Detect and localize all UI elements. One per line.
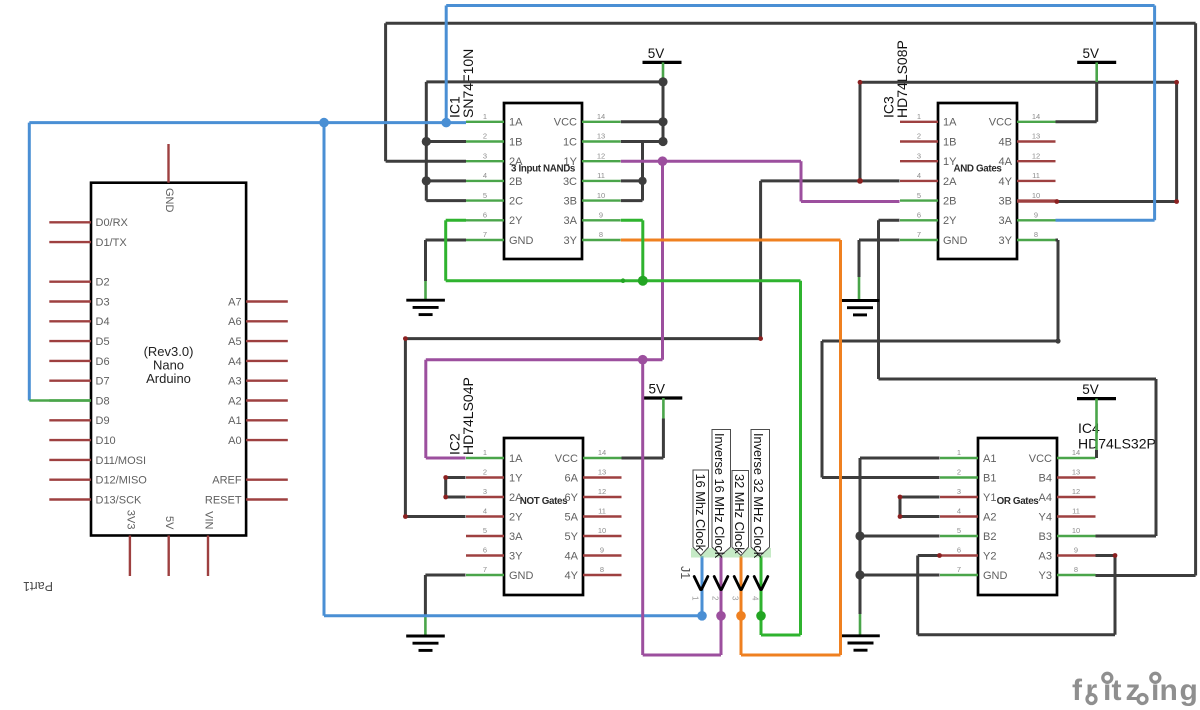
Nano pin D1/TX lead [49, 241, 91, 243]
wire IC3-2Y to IC4-B3 horizontal [879, 378, 1157, 381]
bendpoint IC3 rail right bottom [1174, 199, 1179, 204]
wire blue horizontal into IC3 pin 3A [1056, 219, 1155, 222]
junction purple at J1 pin2 [716, 611, 726, 621]
svg-text:12: 12 [1072, 487, 1080, 496]
Nano pin D11/MOSI lead [49, 459, 91, 461]
bendpoint IC3 2A corner [758, 336, 763, 341]
svg-text:A4: A4 [1039, 492, 1052, 504]
5V power symbol for IC1 [643, 46, 682, 63]
wire IC2 1Y stub [446, 476, 466, 479]
wire IC3 GND green tail [858, 277, 861, 300]
wire green IC1 3A vertical branch [641, 220, 644, 280]
wire orange vertical up to J1 pin3 pad [740, 556, 743, 655]
J1 pin 3 arrow [734, 577, 748, 590]
svg-text:13: 13 [597, 132, 605, 141]
junction blue at J1 pin1 [697, 611, 707, 621]
svg-text:HD74LS08P: HD74LS08P [894, 40, 910, 118]
svg-text:1B: 1B [943, 136, 956, 148]
wire IC2 VCC horizontal [622, 457, 664, 460]
IC4 IC body [978, 438, 1057, 595]
IC4 pin A3 lead (pin 9) [1057, 554, 1096, 556]
svg-text:1Y: 1Y [943, 156, 957, 168]
wire purple horizontal into IC2 pin 1A [426, 457, 466, 460]
svg-text:9: 9 [599, 211, 603, 220]
svg-text:1Y: 1Y [564, 156, 578, 168]
bendpoint IC4 Y2 [937, 553, 942, 558]
wire IC3 3B lead extension red [1017, 200, 1057, 202]
wire purple vertical branch down [661, 161, 664, 360]
svg-text:10: 10 [598, 526, 606, 535]
Nano pin D8 lead (connected) [49, 399, 91, 401]
svg-text:D11/MOSI: D11/MOSI [96, 455, 147, 467]
Nano pin A4 lead [246, 360, 288, 362]
svg-text:13: 13 [1072, 468, 1080, 477]
svg-text:D3: D3 [96, 296, 110, 308]
wire IC3 GND horizontal [859, 239, 900, 242]
IC1 pin 2B lead (pin 4) [466, 180, 504, 182]
svg-text:D7: D7 [96, 376, 110, 388]
IC2 pin 3A lead (pin 5) [466, 535, 504, 537]
wire IC1 3C 3B tie vertical [641, 142, 644, 201]
wire green long horizontal [446, 279, 801, 282]
IC4 pin B3 lead (pin 10) [1057, 535, 1096, 537]
svg-text:14: 14 [598, 448, 606, 457]
IC4 pin B2 lead (pin 5) [940, 535, 978, 537]
wire IC1 GND vertical [424, 240, 427, 281]
svg-text:14: 14 [1032, 112, 1040, 121]
IC3 pin 1Y lead (pin 3) [900, 160, 938, 162]
IC1 pin 3A lead (pin 9) [582, 219, 621, 221]
svg-text:HD74LS32P: HD74LS32P [1078, 436, 1156, 452]
wire horizontal into IC1 pin 2A [386, 160, 466, 163]
bendpoint IC4 A2 [898, 514, 903, 519]
junction IC1 2B [422, 176, 431, 185]
svg-text:2B: 2B [509, 176, 522, 188]
5V power symbol for IC3 [1077, 46, 1116, 63]
wire orange IC1 3Y horizontal [621, 239, 841, 242]
svg-text:6: 6 [957, 546, 961, 555]
svg-text:14: 14 [597, 112, 605, 121]
svg-text:3Y: 3Y [999, 235, 1013, 247]
IC3 pin 3A lead (pin 9) [1017, 219, 1056, 221]
IC2 pin 4A lead (pin 9) [583, 554, 622, 556]
bendpoint IC3 3Y corner [1055, 338, 1060, 343]
junction IC1 1B [422, 137, 431, 146]
svg-text:GND: GND [509, 570, 534, 582]
svg-text:5Y: 5Y [565, 531, 579, 543]
IC4 pin Y1 lead (pin 3) [940, 496, 978, 498]
Nano top GND pin lead [167, 144, 169, 183]
svg-text:10: 10 [1072, 526, 1080, 535]
IC4 pin VCC lead (pin 14) [1057, 457, 1096, 459]
svg-text:16 Mhz Clock: 16 Mhz Clock [693, 474, 708, 552]
bendpoint IC2 2Y top [403, 336, 408, 341]
wire 5V lead green above IC3 [1095, 62, 1098, 82]
bendpoint IC2 2Y corner [403, 514, 408, 519]
svg-text:4: 4 [751, 596, 760, 601]
wire IC4 B2 horizontal [860, 535, 940, 538]
Nano pin A2 lead [246, 399, 288, 401]
svg-text:D8: D8 [96, 395, 110, 407]
svg-text:AND Gates: AND Gates [953, 164, 1002, 175]
svg-text:2A: 2A [943, 176, 957, 188]
svg-text:1: 1 [691, 596, 700, 601]
svg-text:4Y: 4Y [565, 570, 579, 582]
wire IC2 GND green tail [424, 617, 427, 636]
svg-text:D1/TX: D1/TX [96, 237, 128, 249]
junction IC1 3C [638, 177, 646, 185]
svg-text:11: 11 [597, 171, 605, 180]
IC2 pin 6A lead (pin 13) [583, 476, 622, 478]
svg-text:5V: 5V [649, 382, 666, 397]
J1 pin pads (green) [691, 548, 771, 558]
wire purple vertical down to J1 [641, 360, 644, 655]
svg-text:2: 2 [483, 132, 487, 141]
Nano pin A1 lead [246, 419, 288, 421]
wire IC2 2Y vertical up [404, 339, 407, 517]
svg-text:3A: 3A [999, 215, 1013, 227]
svg-text:3: 3 [957, 487, 961, 496]
Nano pin D0/RX lead [49, 221, 91, 223]
svg-text:2Y: 2Y [509, 511, 523, 523]
IC3 pin 1B lead (pin 2) [900, 140, 938, 142]
svg-text:11: 11 [1032, 171, 1040, 180]
wire blue top horizontal to IC1 1A [29, 121, 466, 124]
Nano pin AREF lead [246, 479, 288, 481]
svg-text:7: 7 [483, 565, 487, 574]
wire IC1 tie-high rail horizontal to 5V [426, 80, 663, 83]
Nano bottom pin 3V3 lead [129, 536, 131, 577]
svg-text:9: 9 [1034, 211, 1038, 220]
svg-text:5: 5 [483, 526, 487, 535]
svg-text:5V: 5V [163, 516, 175, 530]
svg-text:5V: 5V [1082, 46, 1099, 61]
wire purple jog vertical [800, 161, 803, 201]
wire IC4 A2 stub [900, 515, 940, 518]
wire IC1 1C horizontal [621, 140, 663, 143]
svg-text:2B: 2B [943, 196, 956, 208]
wire green IC1 2Y horizontal [446, 219, 466, 222]
Nano pin A0 lead [246, 439, 288, 441]
svg-text:VIN: VIN [202, 511, 214, 529]
IC2 pin 2A lead (pin 3) [466, 496, 504, 498]
svg-text:OR Gates: OR Gates [997, 496, 1040, 507]
wire into IC1 pin 2C [426, 199, 466, 202]
IC2 pin 5A lead (pin 11) [583, 515, 622, 517]
svg-text:AREF: AREF [212, 475, 242, 487]
wire purple vertical to IC2 1A [424, 360, 427, 458]
svg-text:7: 7 [483, 230, 487, 239]
wire 5V vertical to IC1 VCC and 1C [662, 82, 665, 142]
wire green vertical down [444, 220, 447, 280]
J1 pin 1 arrow [694, 577, 708, 590]
wire IC3 VCC vertical to 5V [1095, 82, 1098, 122]
IC3 pin 2Y lead (pin 6) [900, 219, 938, 221]
svg-text:12: 12 [1032, 151, 1040, 160]
svg-text:D13/SCK: D13/SCK [96, 494, 143, 506]
wire IC1 GND horizontal [426, 239, 467, 242]
IC4 pin A1 lead (pin 1) [940, 457, 978, 459]
IC1 pin VCC lead (pin 14) [582, 121, 621, 123]
wire IC3 rail right vertical [1175, 82, 1178, 201]
Nano pin D5 lead [49, 340, 91, 342]
IC4 pin Y2 lead (pin 6) [940, 554, 978, 556]
wire horizontal into IC4 pin B1 [822, 476, 940, 479]
junction green small bendpoint [621, 278, 626, 283]
svg-text:VCC: VCC [555, 453, 578, 465]
svg-text:D12/MISO: D12/MISO [96, 475, 148, 487]
svg-text:3A: 3A [509, 531, 523, 543]
wire into IC1 pin 1B [426, 140, 466, 143]
wire IC4 A1 horizontal [860, 457, 940, 460]
IC3 pin 4A lead (pin 12) [1017, 160, 1056, 162]
IC1 IC body [504, 103, 582, 259]
wire IC2 2Y horizontal [405, 515, 465, 518]
svg-text:D9: D9 [96, 415, 110, 427]
wire orange vertical down [839, 240, 842, 655]
svg-text:2Y: 2Y [943, 215, 957, 227]
svg-text:GND: GND [983, 570, 1008, 582]
junction IC4 B2 [855, 531, 864, 540]
svg-text:A3: A3 [1039, 550, 1052, 562]
wire IC3 3B horizontal [1057, 200, 1177, 203]
wire IC1-2A to IC4-Y3 top rail horizontal [386, 22, 1196, 25]
junction blue at branch [319, 118, 329, 128]
IC1 pin 3B lead (pin 10) [582, 199, 621, 201]
wire purple vertical up to J1 pin2 pad [720, 556, 723, 655]
junction 5V rail [658, 77, 667, 86]
svg-text:1A: 1A [509, 453, 523, 465]
bendpoint IC3 rail right top [1174, 80, 1179, 85]
wire long horizontal IC2-2Y to IC3-2A net [405, 337, 760, 340]
Nano pin A3 lead [246, 380, 288, 382]
svg-text:A4: A4 [228, 356, 241, 368]
Nano bottom pin 5V lead [167, 536, 169, 577]
IC2 IC body [504, 438, 583, 595]
svg-text:3: 3 [917, 151, 921, 160]
svg-text:3: 3 [731, 596, 740, 601]
svg-text:GND: GND [943, 235, 968, 247]
svg-text:9: 9 [600, 546, 604, 555]
wire blue vertical up to J1 pin1 pad [701, 556, 704, 616]
svg-text:8: 8 [599, 230, 603, 239]
wire IC3 2Y horizontal [879, 219, 900, 222]
IC3 pin 4B lead (pin 13) [1017, 140, 1056, 142]
IC1 pin 1Y lead (pin 12) [582, 160, 621, 162]
svg-text:A7: A7 [228, 296, 241, 308]
svg-text:Y3: Y3 [1039, 570, 1052, 582]
wire vertical down to IC4 B1 row [821, 341, 824, 478]
ground symbol GND4 (IC4) [841, 636, 880, 650]
svg-text:1: 1 [957, 448, 961, 457]
svg-text:4A: 4A [565, 550, 579, 562]
svg-text:A1: A1 [228, 415, 241, 427]
svg-text:A2: A2 [983, 511, 996, 523]
svg-text:5V: 5V [1082, 382, 1099, 397]
svg-text:n: n [1160, 674, 1178, 707]
wire IC1 GND green tail [424, 281, 427, 300]
junction IC3 2A [857, 178, 863, 184]
wire green vertical down right [799, 281, 802, 635]
svg-text:VCC: VCC [989, 117, 1012, 129]
ground symbol GND1 (IC1) [406, 300, 445, 314]
svg-text:3B: 3B [564, 196, 577, 208]
svg-text:4: 4 [483, 507, 487, 516]
wire IC2 GND horizontal [425, 574, 465, 577]
svg-text:5: 5 [957, 526, 961, 535]
svg-text:GND: GND [509, 235, 534, 247]
svg-text:10: 10 [1032, 191, 1040, 200]
IC1 pin 2Y lead (pin 6) [466, 219, 504, 221]
IC3 IC body [938, 103, 1017, 259]
svg-text:RESET: RESET [205, 494, 242, 506]
J1 pin3 label flag [732, 471, 749, 556]
IC4 pin GND lead (pin 7) [940, 574, 978, 576]
svg-text:10: 10 [597, 191, 605, 200]
wire IC1 VCC horizontal [621, 120, 663, 123]
junction purple at IC1 1Y branch [658, 156, 668, 166]
wire IC3 3Y vertical down [1057, 240, 1060, 341]
wire 5V lead green above IC4 VCC [1095, 399, 1098, 450]
Nano bottom pin VIN lead [207, 536, 209, 577]
svg-text:3: 3 [483, 487, 487, 496]
svg-text:3V3: 3V3 [124, 510, 136, 530]
junction IC4 GND [855, 570, 864, 579]
junction purple above IC2 [638, 355, 648, 365]
svg-text:6A: 6A [565, 472, 579, 484]
svg-text:J1: J1 [678, 566, 692, 579]
J1 pin 2 arrow [714, 577, 728, 590]
svg-text:13: 13 [598, 468, 606, 477]
wire blue Nano D8 vertical [28, 123, 31, 401]
wire blue vertical branch down to J1 [323, 123, 326, 616]
wire blue D8 green stub into Nano [29, 399, 91, 401]
svg-text:VCC: VCC [1029, 453, 1052, 465]
wire vertical up to IC3 2A row [759, 181, 762, 339]
svg-text:2A: 2A [509, 492, 523, 504]
svg-text:NOT Gates: NOT Gates [520, 496, 568, 507]
fritzing logo node dots [1087, 673, 1160, 703]
wire IC4 VCC vertical dark [1095, 450, 1098, 458]
svg-text:3Y: 3Y [564, 235, 578, 247]
wire IC4 Y2 vertical down [916, 556, 919, 635]
wire IC3 3Y horizontal stub [1056, 239, 1059, 242]
Nano pin RESET lead [246, 498, 288, 500]
junction green at J1 pin4 [756, 611, 766, 621]
Nano pin A6 lead [246, 320, 288, 322]
svg-text:3: 3 [483, 151, 487, 160]
svg-text:12: 12 [597, 151, 605, 160]
bendpoint IC4 A3 [1113, 553, 1118, 558]
svg-text:1A: 1A [943, 117, 957, 129]
wire IC3 GND vertical [858, 240, 861, 277]
wire IC4 Y2 to A3 bottom horizontal [918, 633, 1115, 636]
Nano pin D10 lead [49, 439, 91, 441]
IC4 pin A4 lead (pin 12) [1057, 496, 1096, 498]
svg-text:D2: D2 [96, 277, 110, 289]
svg-text:13: 13 [1032, 132, 1040, 141]
svg-text:5A: 5A [565, 511, 579, 523]
svg-text:4B: 4B [999, 136, 1012, 148]
wire horizontal into IC3 pin 2A [761, 179, 900, 182]
Nano pin A5 lead [246, 340, 288, 342]
svg-text:2: 2 [917, 132, 921, 141]
IC3 pin 2B lead (pin 5) [900, 199, 938, 201]
wire 5V lead green above IC1 [662, 62, 665, 82]
svg-text:4A: 4A [999, 156, 1013, 168]
wire IC3 tie vertical 2A to rail [859, 82, 862, 181]
IC2 pin 6Y lead (pin 12) [583, 496, 622, 498]
svg-text:D5: D5 [96, 336, 110, 348]
wire IC1 tie-high vertical 1B 2B 2C [425, 82, 428, 201]
IC1 pin GND lead (pin 7) [466, 239, 504, 241]
wire orange bottom horizontal [741, 654, 841, 657]
svg-text:HD74LS04P: HD74LS04P [460, 377, 476, 455]
svg-text:A2: A2 [228, 395, 241, 407]
svg-text:4: 4 [917, 171, 921, 180]
wire IC2 1Y-2A tie vertical [444, 478, 447, 498]
wire purple horizontal above IC2 [426, 358, 663, 361]
svg-text:7: 7 [957, 565, 961, 574]
IC2 pin 5Y lead (pin 10) [583, 535, 622, 537]
wire IC2 GND vertical [424, 575, 427, 616]
fritzing watermark logo [1072, 674, 1198, 707]
ground symbol GND2 (IC2) [406, 636, 445, 650]
svg-text:5V: 5V [648, 46, 665, 61]
svg-text:D10: D10 [96, 435, 116, 447]
IC3 pin 3Y lead (pin 8) [1017, 239, 1056, 241]
svg-text:11: 11 [1072, 507, 1080, 516]
wire IC4 ground tie vertical A1 B2 GND [859, 458, 862, 614]
svg-text:1A: 1A [509, 117, 523, 129]
svg-text:2C: 2C [509, 196, 523, 208]
wire blue vertical up from IC1 1A [445, 6, 448, 123]
svg-text:3Y: 3Y [509, 550, 523, 562]
svg-text:3B: 3B [999, 196, 1012, 208]
svg-text:Inverse 16 MHz Clock: Inverse 16 MHz Clock [712, 433, 727, 559]
IC3 pin GND lead (pin 7) [900, 239, 938, 241]
svg-text:f: f [1072, 674, 1083, 707]
wire IC3 rail horizontal [860, 81, 1177, 84]
Nano pin D7 lead [49, 380, 91, 382]
Nano pin D12/MISO lead [49, 479, 91, 481]
svg-text:A5: A5 [228, 336, 241, 348]
wire blue bottom horizontal to J1 pin1 [324, 614, 702, 617]
wire IC3 VCC horizontal [1056, 120, 1097, 123]
svg-text:5: 5 [917, 191, 921, 200]
IC2 pin 2Y lead (pin 4) [466, 515, 504, 517]
svg-text:B1: B1 [983, 472, 996, 484]
junction orange at J1 pin3 [736, 611, 746, 621]
Nano pin D13/SCK lead [49, 498, 91, 500]
wire green bottom horizontal [761, 634, 801, 637]
svg-text:8: 8 [600, 565, 604, 574]
wire IC4 A3 horizontal [1096, 554, 1116, 557]
wire green vertical up to J1 pin4 pad [760, 556, 763, 635]
IC4 pin Y4 lead (pin 11) [1057, 515, 1096, 517]
IC1 pin 2A lead (pin 3) [466, 160, 504, 162]
wire IC1 3C stub [621, 179, 643, 182]
wire horizontal into IC4 pin B3 [1096, 535, 1157, 538]
junction IC1 VCC [658, 117, 667, 126]
IC1 pin 1C lead (pin 13) [582, 140, 621, 142]
svg-text:6Y: 6Y [565, 492, 579, 504]
ground symbol GND3 (IC3) [841, 301, 880, 315]
svg-text:4: 4 [483, 171, 487, 180]
svg-text:2A: 2A [509, 156, 523, 168]
Nano pin D4 lead [49, 320, 91, 322]
svg-text:Y4: Y4 [1039, 511, 1052, 523]
